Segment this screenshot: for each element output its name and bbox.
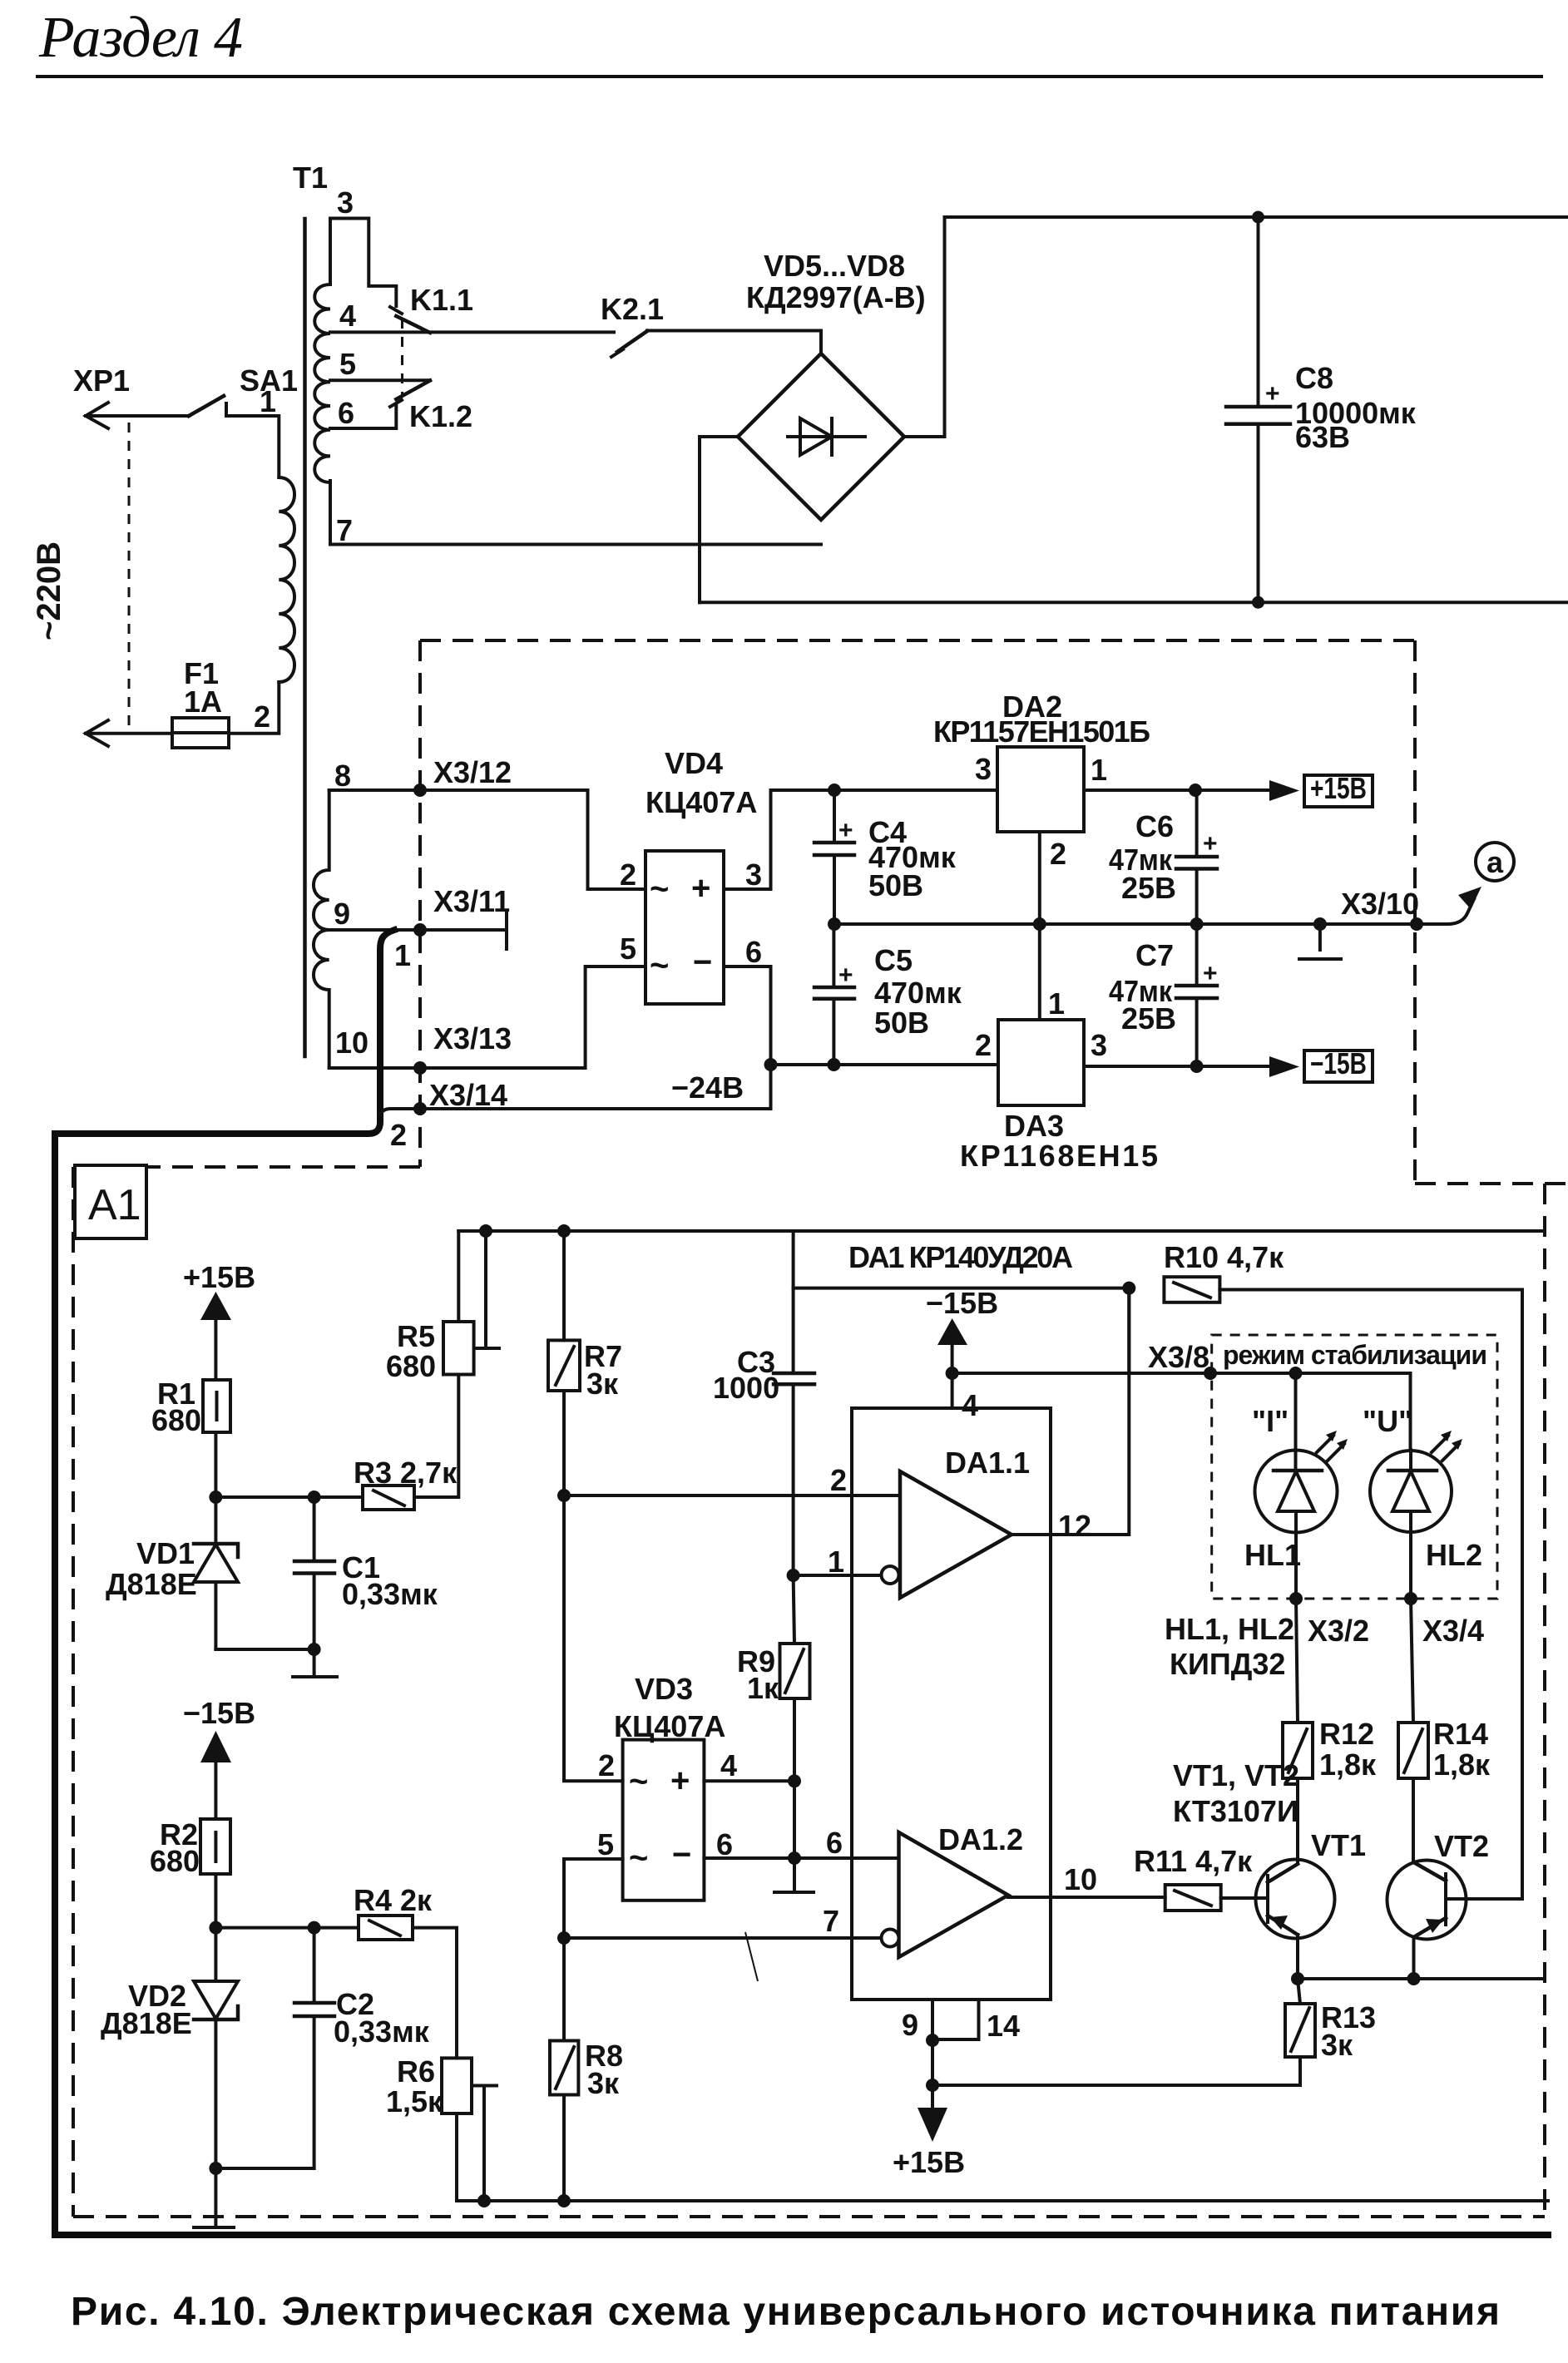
wire DA1.1 pin 12 [1012,1288,1129,1535]
svg-text:6: 6 [745,935,762,969]
wire [931,2040,934,2085]
relay contact K1.2 [390,381,430,408]
wire [226,416,279,477]
svg-text:50В: 50В [868,868,923,902]
label −15В boxed [1304,1046,1373,1082]
node VD3 pin 4 [788,1774,801,1787]
svg-text:1: 1 [394,938,411,972]
wire R11 to VT1 base [1221,1896,1268,1900]
svg-text:КР1157ЕН1501Б: КР1157ЕН1501Б [933,714,1150,749]
winding terminal 1 heavy wire [55,930,1548,2235]
plug XP1 pin top arrow [86,403,108,428]
svg-text:Д818Е: Д818Е [101,2006,192,2040]
node X3/10 [1410,917,1423,931]
wire tap8 to VD4 pin 2 [329,790,646,889]
svg-text:C6: C6 [1135,809,1174,843]
svg-text:DA1.2: DA1.2 [938,1822,1023,1856]
svg-text:6: 6 [826,1826,843,1860]
node C6 top [1189,784,1202,797]
svg-text:3к: 3к [587,2066,620,2100]
connector X3 dashed boundary [146,640,1568,1184]
wire bottom rail [457,2199,1548,2202]
svg-text:2: 2 [975,1028,992,1062]
svg-text:HL1, HL2: HL1, HL2 [1165,1612,1294,1646]
resistor R5 [443,1322,474,1375]
transformer T1 primary winding [279,477,294,682]
svg-text:A1: A1 [88,1181,141,1229]
rectifier VD3 [623,1740,705,1901]
svg-text:5: 5 [620,932,636,966]
svg-text:−15В: −15В [183,1696,255,1730]
node C5 bottom [827,1058,840,1071]
wire bottom rail [700,601,1568,604]
svg-text:VD3: VD3 [635,1672,693,1706]
node HL1 top [1289,1367,1303,1380]
capacitor C4 [814,790,854,924]
node C1 top [308,1490,321,1504]
svg-text:~: ~ [629,1763,648,1800]
svg-text:КТ3107И: КТ3107И [1173,1794,1298,1828]
node -24В [764,1058,778,1071]
node R7 bottom [557,1489,571,1502]
svg-text:"U": "U" [1363,1404,1412,1438]
capacitor C1 [294,1497,334,1649]
capacitor C8 [1226,217,1290,602]
svg-text:HL2: HL2 [1426,1538,1482,1572]
svg-text:3к: 3к [1321,2028,1353,2062]
svg-text:R6: R6 [397,2054,435,2089]
node VT2 emitter [1407,1972,1421,1985]
resistor R12 [1283,1599,1313,1863]
svg-text:VD1: VD1 [136,1536,195,1570]
svg-text:50В: 50В [874,1006,929,1040]
relay contact K1.1 [390,307,430,333]
svg-text:25В: 25В [1121,871,1176,905]
wire emitter rail [1298,1977,1545,1980]
wire [86,414,189,418]
capacitor C5 [814,924,854,1065]
opamp DA1 box [852,1408,1051,2000]
heavy branch to X3/14 node [380,1109,420,1115]
wire DA2 pin 2 [1038,832,1041,924]
svg-text:X3/2: X3/2 [1308,1614,1369,1648]
svg-text:X3/8: X3/8 [1148,1340,1209,1374]
svg-text:−24В: −24В [671,1070,744,1105]
header rule [37,75,1541,78]
svg-text:~: ~ [629,1840,648,1876]
wire [457,1231,460,1322]
svg-text:−15В: −15В [1310,1046,1367,1080]
svg-text:3: 3 [1091,1028,1107,1062]
capacitor C3 [774,1288,814,1575]
wire DA1.2 pin 7 [564,1936,882,1940]
node R6 tap [477,2194,491,2207]
output arrow +15В [1269,780,1299,801]
ground VD1/C1 [293,1649,337,1677]
node R1/VD1 [209,1490,222,1504]
wire X3/8 line [952,1372,1211,1375]
svg-text:+: + [670,1762,690,1799]
wire VD3 pin 6 [704,1856,794,1860]
resistor R3 [363,1486,414,1510]
fuse F1 [172,718,229,748]
svg-text:+: + [1265,380,1280,408]
svg-text:0,33мк: 0,33мк [334,2014,430,2049]
node pin1/C3/R9 [787,1569,800,1582]
svg-text:R5: R5 [397,1319,435,1353]
wire bridge minus [700,437,738,602]
capacitor C2 [294,1928,334,2168]
svg-text:1000: 1000 [713,1371,779,1405]
svg-text:T1: T1 [293,161,328,195]
ground VD3 [774,1858,814,1892]
node mid rail C4/C5 [828,917,841,931]
svg-text:680: 680 [386,1349,436,1383]
wire [793,1781,796,1858]
svg-text:1,5к: 1,5к [386,2084,443,2118]
wire tap 6 [330,406,396,428]
wire [86,732,172,735]
resistor R8 [550,1938,578,2201]
node VD3 pin 6 [788,1851,801,1865]
arrow to terminal a [1458,887,1481,909]
wire [413,1928,457,2059]
node DA1 pin 4 [946,1367,959,1380]
node X3/11 [413,923,427,937]
switch SA1 contact [225,403,228,416]
ground X3/10 [1299,917,1341,959]
wire VD3 pin 5 [564,1859,623,1938]
svg-text:X3/11: X3/11 [433,884,510,918]
svg-text:режим стабилизации: режим стабилизации [1223,1340,1487,1370]
power arrow +15В down [918,2085,947,2142]
svg-text:1А: 1А [184,685,222,719]
ground VD2 [194,2168,234,2227]
wire DA3 pin 1 [1038,924,1041,1020]
node C8 bottom [1252,596,1264,609]
svg-text:680: 680 [150,1844,200,1878]
node VT1 emitter [1291,1972,1304,1985]
wire DA1.2 pin 10 [1008,1896,1165,1899]
wire to terminal a [1417,899,1474,924]
svg-text:3: 3 [337,185,354,220]
svg-text:4: 4 [720,1748,737,1782]
svg-text:а: а [1486,845,1504,879]
power arrow −15В [200,1731,231,1819]
power arrow +15В [200,1292,231,1380]
resistor R6 [442,2058,472,2201]
svg-text:X3/14: X3/14 [429,1078,507,1112]
svg-text:VD4: VD4 [665,746,723,780]
plug XP1 pin bottom arrow [86,720,108,746]
power arrow −15В [937,1318,967,1373]
svg-text:1: 1 [828,1545,844,1579]
svg-text:C7: C7 [1135,938,1174,972]
svg-text:R3 2,7к: R3 2,7к [354,1456,458,1490]
mains plug dashed link [128,423,131,733]
node X3/13 [413,1061,427,1075]
svg-text:R14: R14 [1433,1717,1488,1751]
svg-text:2: 2 [598,1748,615,1782]
svg-text:КД2997(А-В): КД2997(А-В) [746,280,926,314]
svg-text:3: 3 [745,858,762,892]
node X3/14 [413,1102,427,1115]
svg-text:2: 2 [830,1463,847,1497]
transformer T1 secondary winding 3-7 [314,284,330,482]
wire [215,1926,359,1930]
svg-text:7: 7 [823,1904,839,1938]
trimmer tap R5 [474,1231,499,1348]
svg-text:КИПД32: КИПД32 [1170,1647,1285,1681]
node pin 9/14 [926,2034,939,2047]
wire [215,1495,363,1499]
wire top rail [945,215,1568,219]
module A1 dashed boundary [73,1167,1545,2217]
svg-text:0,33мк: 0,33мк [342,1577,438,1611]
LED HL2 [1370,1431,1462,1599]
node X3/12 [413,784,427,797]
wire [647,331,821,354]
svg-text:25В: 25В [1121,1001,1176,1036]
transformer T1 winding 8-10 [314,790,329,1068]
resistor R7 [548,1231,580,1495]
output arrow −15В [1269,1056,1299,1077]
svg-text:R10 4,7к: R10 4,7к [1164,1240,1284,1274]
svg-text:1,8к: 1,8к [1319,1748,1377,1782]
svg-text:+15В: +15В [183,1260,255,1294]
resistor R11 [1165,1885,1221,1911]
svg-text:C5: C5 [874,943,913,977]
wire tap 4 [330,330,614,334]
svg-text:12: 12 [1058,1509,1091,1543]
wire X3/8 vertical [1127,1288,1130,1373]
node C8 top [1252,211,1264,224]
svg-text:"I": "I" [1252,1404,1289,1438]
node R5 tap [479,1224,492,1238]
svg-text:X3/12: X3/12 [433,755,512,789]
rectifier VD4 [646,851,724,1004]
node R2/VD2 [209,1921,222,1935]
svg-text:680: 680 [151,1403,201,1437]
svg-text:K1.1: K1.1 [410,283,473,317]
svg-text:−15В: −15В [926,1286,998,1320]
wire tap9 X3/11 [329,928,506,932]
svg-text:1: 1 [1091,753,1107,787]
node C6/C7 mid [1190,917,1204,931]
trimmer tap R6 [472,2086,497,2202]
svg-text:C8: C8 [1295,361,1333,395]
svg-text:DA1.1: DA1.1 [945,1446,1030,1480]
node VD2 bottom [209,2162,222,2175]
transistor VT1 [1256,1860,1335,1980]
svg-text:X3/4: X3/4 [1422,1614,1484,1648]
svg-text:DA3: DA3 [1004,1109,1064,1143]
svg-text:Рис. 4.10. Электрическая схема: Рис. 4.10. Электрическая схема универсал… [71,2290,1500,2334]
label A1 box [75,1165,146,1238]
resistor R14 [1398,1599,1428,1861]
relay link K1 dashed [401,319,403,397]
svg-text:2: 2 [390,1118,407,1152]
wire DA2 pin 1 [1084,788,1269,792]
wire R10 to VT2 base [1219,1290,1522,1900]
svg-text:2: 2 [620,858,636,892]
svg-text:VT1, VT2: VT1, VT2 [1173,1758,1299,1792]
svg-text:КЦ407А: КЦ407А [646,785,757,819]
wire [215,2167,314,2170]
wire DA3 pin 3 [1084,1065,1269,1068]
node X3/4 [1404,1592,1417,1605]
transformer T1 winding taps 3..7 step [330,219,396,307]
node [1033,917,1046,931]
node X3/2 [1289,1592,1303,1605]
svg-text:Раздел 4: Раздел 4 [38,6,243,70]
svg-text:10: 10 [1064,1862,1097,1896]
svg-text:X3/13: X3/13 [433,1021,512,1055]
svg-text:R11 4,7к: R11 4,7к [1134,1844,1253,1878]
wire tap 7 [330,481,821,545]
resistor R4 [359,1916,413,1940]
svg-text:R4 2к: R4 2к [354,1883,433,1917]
svg-text:+: + [1203,830,1218,858]
svg-text:3: 3 [975,752,992,786]
svg-text:1: 1 [1048,986,1065,1021]
node X3/8 [1204,1367,1217,1380]
resistor R10 [1164,1277,1219,1303]
svg-text:−: − [693,944,712,981]
svg-text:9: 9 [334,897,350,931]
node +15В bottom [926,2079,939,2092]
node C4 top [828,784,841,797]
wire DA1.2 pin 6 [794,1856,899,1860]
svg-text:9: 9 [902,2008,918,2042]
wire bridge plus to top rail [904,217,945,437]
capacitor C7 [1176,924,1218,1066]
zener VD2 [194,1928,238,2168]
svg-text:5: 5 [339,347,356,381]
resistor R2 [200,1819,230,1874]
svg-text:470мк: 470мк [874,976,962,1010]
svg-text:6: 6 [338,396,354,430]
wire [214,1874,217,1928]
wire VD4 pin 3 to DA2 [724,790,997,889]
wire mid rail [834,922,1417,926]
wire [214,1432,217,1497]
terminal a [1476,843,1514,881]
svg-text:КЦ407А: КЦ407А [614,1709,725,1743]
label +15В boxed [1304,771,1373,807]
wire DA1.1 pin 2 [564,1494,900,1497]
svg-text:+: + [838,962,853,989]
wire [215,1648,314,1651]
svg-text:K2.1: K2.1 [601,292,664,326]
resistor R1 [203,1380,230,1432]
wire rail drop [794,1231,1130,1288]
bridge rectifier VD5...VD8 [738,353,904,520]
svg-text:+: + [838,817,853,844]
svg-text:2: 2 [254,700,270,734]
svg-text:4: 4 [962,1388,978,1422]
wire VD4 pin 6 [724,966,771,1065]
relay contact K2.1 [611,331,647,357]
voltage regulator DA2 [997,747,1084,832]
zener VD1 [194,1497,238,1649]
svg-text:5: 5 [597,1827,614,1861]
svg-text:−: − [672,1837,691,1873]
node R8 top [557,1931,571,1945]
opamp DA1.1 [900,1471,1012,1598]
svg-text:~220В: ~220В [31,541,67,640]
svg-text:4: 4 [339,299,356,333]
connector pin bar X3/11 [505,912,508,949]
svg-text:XP1: XP1 [73,363,130,398]
wire [414,1375,458,1498]
svg-text:1к: 1к [747,1671,779,1705]
wire VD3 pin 4 [704,1779,794,1782]
svg-text:8: 8 [334,759,351,793]
node C1 bottom [308,1643,321,1656]
LED HL1 [1255,1373,1348,1599]
wire DA1 pin 4 [951,1373,954,1408]
svg-text:DA1 КР140УД20А: DA1 КР140УД20А [848,1240,1073,1274]
stabilization mode dashed box [1212,1335,1497,1599]
svg-text:+15В: +15В [1310,771,1367,805]
wire top rail [458,1229,1541,1233]
transistor VT2 [1387,1861,1467,1980]
svg-text:VT1: VT1 [1311,1828,1366,1862]
switch SA1 blade [189,396,224,416]
svg-text:2: 2 [1050,837,1066,871]
svg-text:10: 10 [335,1026,369,1060]
svg-text:+: + [1203,960,1218,987]
svg-text:14: 14 [987,2009,1020,2043]
wire [229,682,279,734]
resistor R13 [932,1979,1315,2085]
svg-text:VD5...VD8: VD5...VD8 [764,249,905,283]
svg-text:R12: R12 [1319,1717,1374,1751]
svg-text:Д818Е: Д818Е [106,1567,197,1601]
voltage regulator DA3 [998,1020,1084,1105]
svg-text:K1.2: K1.2 [409,399,472,433]
inverting input circle DA1.1 [882,1566,899,1584]
svg-text:1,8к: 1,8к [1433,1748,1491,1782]
wire VD3 pin 2 [564,1495,623,1781]
svg-text:X3/10: X3/10 [1341,887,1419,921]
svg-text:6: 6 [716,1827,733,1861]
svg-text:+15В: +15В [893,2145,965,2179]
svg-text:+: + [691,870,710,907]
svg-text:VT2: VT2 [1434,1829,1489,1863]
capacitor C6 [1176,790,1218,924]
wire -24В node to DA3 pin 2 [771,1063,999,1066]
wire X3/14 [420,1065,771,1109]
wire tap 5 [330,378,430,382]
node R7 top [557,1224,571,1238]
opamp DA1.2 [899,1832,1009,1957]
wire LED feed [1211,1373,1411,1450]
svg-text:КР1168ЕН15: КР1168ЕН15 [960,1139,1158,1173]
wire DA1 pins 9 14 [932,2000,979,2040]
node C2 top [308,1921,321,1935]
inverting input circle DA1.2 [882,1930,899,1947]
svg-text:63В: 63В [1295,420,1350,454]
svg-text:1: 1 [260,384,276,418]
svg-text:~: ~ [650,871,669,907]
transformer T1 core [303,219,307,1056]
wire tap10 X3/13 to VD4 pin 5 [329,966,646,1068]
svg-text:HL1: HL1 [1244,1538,1301,1572]
svg-text:7: 7 [336,513,353,547]
resistor R9 [780,1575,810,1781]
